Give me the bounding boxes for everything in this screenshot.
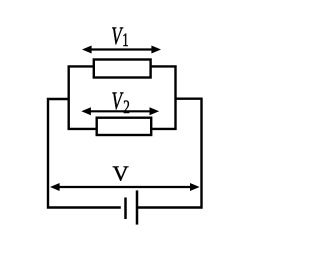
arrow V2 (double-headed over R2)	[81, 107, 159, 115]
svg-text:1: 1	[122, 31, 128, 51]
wire: left inner bus connecting R1 and R2 left terminals	[69, 66, 97, 128]
wire: right inner bus connecting R1 and R2 right terminals	[151, 66, 176, 128]
label V2	[112, 87, 130, 118]
resistor R2 (bottom box)	[97, 118, 152, 135]
wire: right outer branch from bus junction down to battery	[137, 99, 202, 208]
resistor R1 (top box)	[94, 60, 151, 78]
arrow V (double-headed across battery)	[50, 183, 200, 191]
svg-text:V: V	[113, 162, 130, 185]
arrow V1 (double-headed over R1)	[82, 46, 161, 54]
battery: short (negative) plate	[124, 198, 127, 220]
label V1	[111, 22, 128, 51]
battery: long (positive) plate	[136, 190, 139, 224]
svg-text:2: 2	[123, 95, 130, 117]
wire: left outer branch from bus junction down to battery	[48, 99, 121, 208]
